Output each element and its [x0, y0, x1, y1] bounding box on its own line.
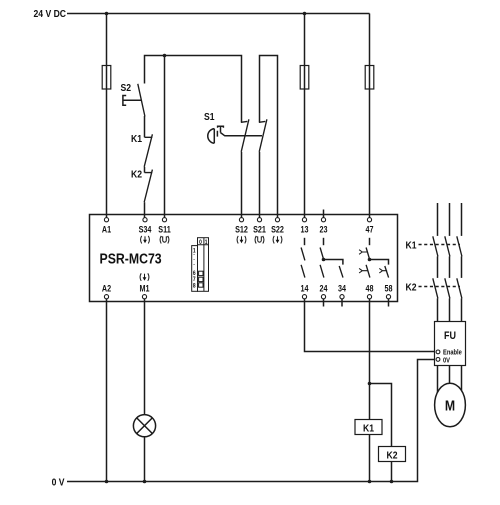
fuse F2: [300, 66, 309, 90]
button S1 actuator linkage: [217, 126, 262, 136]
svg-text:24: 24: [319, 284, 327, 294]
symbol S22 down-arrow: [273, 236, 282, 244]
wire bottom 0V rail: [67, 360, 434, 482]
terminal M1: [142, 295, 146, 299]
svg-text:FU: FU: [444, 330, 456, 342]
svg-text:0: 0: [199, 240, 202, 247]
coil K1: [355, 420, 382, 435]
svg-text:S11: S11: [158, 225, 171, 235]
fuse F3: [365, 66, 374, 90]
wire phase low 1: [437, 298, 439, 321]
wire 14 to FU Enable: [305, 299, 435, 352]
terminal 47: [367, 218, 371, 222]
svg-text:M: M: [445, 397, 455, 413]
svg-text:·: ·: [193, 262, 195, 269]
wire 47 drop: [369, 14, 371, 218]
wire K1 to K2: [144, 167, 146, 173]
contact K2 feedback: [144, 170, 152, 203]
lamp P1: [133, 415, 155, 437]
terminal S12: [239, 218, 243, 222]
wire 48 down: [369, 299, 371, 420]
contact 47-48 blades: [366, 248, 370, 278]
button S1 mushroom head: [208, 129, 215, 144]
node junction K2 at 0V: [390, 480, 394, 484]
wire lamp to 0V: [144, 437, 146, 482]
svg-text:A2: A2: [102, 284, 112, 294]
wire K1 coil to 0V: [369, 435, 371, 482]
stub terminal 23: [323, 210, 325, 218]
stub below 24: [323, 299, 325, 307]
node junction 48/58: [368, 258, 372, 262]
wire phase mid 2: [449, 256, 451, 278]
drive FU box: [435, 322, 466, 366]
stub below 34: [341, 299, 343, 307]
link K2 dashed: [419, 286, 461, 288]
wire FU to motor 1: [437, 366, 439, 396]
wire branch to 34: [324, 260, 343, 265]
link K1 dashed: [419, 244, 461, 246]
symbol fork 48: [359, 268, 368, 273]
contact K1 pole 3: [457, 236, 462, 256]
svg-text:PSR-MC73: PSR-MC73: [100, 250, 162, 266]
motor M1 3~: [435, 383, 466, 427]
wire phase mid 1: [437, 256, 439, 278]
terminal 24: [321, 295, 325, 299]
svg-text:Enable: Enable: [443, 349, 462, 357]
svg-text:8: 8: [193, 283, 196, 290]
wire S11 drop: [164, 56, 166, 218]
svg-text:K1: K1: [363, 423, 375, 435]
contact K1 feedback: [144, 134, 152, 167]
terminal S21: [257, 218, 261, 222]
terminal S34: [143, 218, 147, 222]
wire S1.1 to S12: [241, 152, 243, 218]
contact K1 pole 1: [433, 236, 438, 256]
svg-text:S22: S22: [271, 225, 284, 235]
coil K2: [379, 447, 406, 462]
svg-text:K2: K2: [131, 169, 142, 181]
node junction A2 at 0V: [105, 480, 109, 484]
switch S2 manual actuator: [123, 96, 141, 106]
contact 13-14 dash: [304, 238, 306, 245]
contact K1 pole 2: [445, 236, 450, 256]
symbol fork 58: [379, 268, 387, 273]
terminal A1: [104, 218, 108, 222]
terminal A2: [104, 295, 108, 299]
contact S1.1: [241, 119, 249, 152]
svg-text:S12: S12: [235, 225, 248, 235]
contact 47-48 dash: [369, 238, 371, 245]
wire S21-S22 loop: [260, 56, 278, 218]
contact 58 blade: [385, 266, 389, 278]
contact 23-24 dash: [323, 238, 325, 245]
node junction lamp at 0V: [143, 480, 147, 484]
stub below 58: [388, 299, 390, 307]
DIP switch block: [192, 238, 209, 292]
svg-text:14: 14: [300, 284, 308, 294]
terminal 23: [321, 218, 325, 222]
wire phase mid 3: [461, 256, 463, 278]
wire phase low 3: [461, 298, 463, 321]
terminal 13: [302, 218, 306, 222]
svg-text:23: 23: [319, 225, 327, 235]
wire FU to motor 3: [461, 366, 463, 396]
symbol M1 down-arrow: [140, 273, 149, 281]
svg-text:K1: K1: [406, 240, 418, 252]
wire A2 to 0V: [106, 299, 108, 482]
svg-text:K2: K2: [406, 282, 417, 294]
wire K2 coil to 0V: [391, 462, 393, 482]
svg-text:0 V: 0 V: [52, 477, 65, 489]
switch S2 blade: [138, 84, 145, 117]
wire S1.2 to S21: [259, 152, 261, 218]
svg-text:48: 48: [365, 284, 373, 294]
terminal 58: [386, 295, 390, 299]
symbol S21 clock: [255, 236, 264, 244]
wire A1 drop: [106, 14, 108, 218]
contact 13-14 blades: [301, 248, 305, 278]
svg-text:S2: S2: [121, 82, 132, 94]
wire phase low 2: [449, 298, 451, 321]
node junction K1 at 0V: [368, 480, 372, 484]
fuse F1: [102, 66, 111, 90]
symbol S34 down-arrow: [141, 236, 150, 244]
wire top 24V rail: [67, 13, 370, 15]
wire phase L3: [461, 203, 463, 236]
contact K2 pole 3: [457, 278, 462, 298]
terminal 14: [302, 295, 306, 299]
svg-text:1: 1: [205, 240, 208, 247]
svg-text:13: 13: [300, 225, 308, 235]
wire K2 to S34: [144, 202, 146, 217]
svg-text:24 V DC: 24 V DC: [33, 8, 66, 20]
wire S2 to K1: [144, 116, 146, 137]
node junction 24/34: [322, 258, 326, 262]
relay U1 body: [90, 215, 398, 302]
contact K2 pole 1: [433, 278, 438, 298]
contact S1.2: [259, 119, 267, 152]
svg-text:58: 58: [384, 284, 392, 294]
wire M1 to lamp: [144, 299, 146, 415]
terminal FU 0V: [436, 358, 440, 362]
svg-text:A1: A1: [102, 225, 112, 235]
node junction K2 coil branch: [368, 382, 372, 386]
terminal S22: [275, 218, 279, 222]
svg-text:S34: S34: [139, 225, 152, 235]
svg-text:34: 34: [338, 284, 346, 294]
node junction 13 drop: [303, 12, 307, 16]
svg-text:S21: S21: [253, 225, 266, 235]
symbol fork 47: [359, 250, 368, 255]
terminal 48: [367, 295, 371, 299]
wire branch to 58: [370, 260, 389, 265]
terminal 34: [340, 295, 344, 299]
svg-text:K1: K1: [131, 133, 143, 145]
symbol S11 clock: [160, 236, 169, 244]
wire phase L1: [437, 203, 439, 236]
svg-text:0V: 0V: [443, 357, 451, 365]
svg-text:S1: S1: [204, 111, 215, 123]
svg-text:M1: M1: [139, 284, 149, 294]
node junction S11 branch: [163, 54, 167, 58]
contact 34 blade: [339, 266, 343, 278]
svg-text:K2: K2: [387, 450, 398, 462]
contact 23-24 blades: [320, 248, 324, 278]
node junction A1 drop: [105, 12, 109, 16]
wire S2/S1 feed rail: [145, 56, 242, 123]
wire FU to motor 2: [449, 366, 451, 391]
symbol S12 down-arrow: [237, 236, 246, 244]
svg-text:47: 47: [365, 225, 373, 235]
wire phase L2: [449, 203, 451, 236]
terminal S11: [162, 218, 166, 222]
wire 13 drop: [304, 14, 306, 218]
terminal FU Enable: [436, 350, 440, 354]
contact K2 pole 2: [445, 278, 450, 298]
wire branch to K2 coil: [370, 384, 392, 447]
